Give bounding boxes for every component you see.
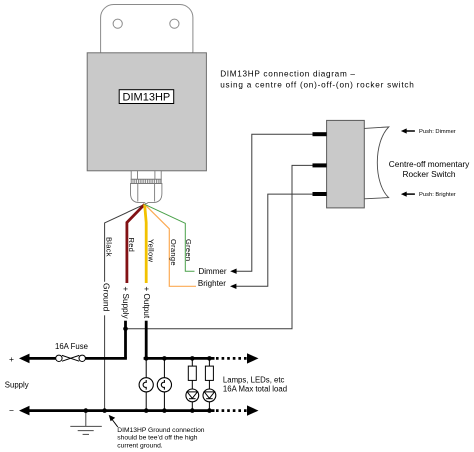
plus rail left segment: [26, 357, 127, 360]
switch terminal top: [313, 132, 327, 136]
arrowhead brighter: [230, 284, 236, 289]
thick drop + Output: [145, 321, 148, 359]
plus rail left arrowhead: [19, 354, 30, 364]
rocker switch body: [327, 120, 365, 207]
push dimmer arrow: [401, 128, 415, 133]
svg-text:Black: Black: [105, 237, 114, 257]
DIM13HP module body: [87, 53, 206, 171]
svg-text:Ground: Ground: [102, 283, 112, 312]
svg-text:Rocker Switch: Rocker Switch: [402, 169, 455, 179]
svg-text:Lamps, LEDs, etc: Lamps, LEDs, etc: [223, 375, 285, 384]
svg-text:Red: Red: [127, 238, 136, 253]
svg-text:Dimmer: Dimmer: [199, 267, 227, 276]
svg-text:should be tee’d off the high: should be tee’d off the high: [117, 435, 197, 442]
mounting hole right: [170, 19, 179, 28]
ground symbol junction dot: [84, 408, 89, 413]
wire switch middle terminal to + Supply: [126, 165, 313, 328]
svg-text:+ Supply: + Supply: [121, 287, 130, 320]
svg-text:Push: Brighter: Push: Brighter: [419, 192, 456, 198]
svg-text:using a centre off (on)-off-(o: using a centre off (on)-off-(on) rocker …: [220, 81, 414, 90]
wire switch top terminal to Dimmer: [236, 134, 313, 271]
switch terminal middle: [313, 163, 327, 167]
wire black lower segment: [104, 315, 106, 410]
svg-text:DIM13HP connection diagram –: DIM13HP connection diagram –: [220, 69, 356, 78]
svg-text:DIM13HP Ground connection: DIM13HP Ground connection: [117, 427, 205, 434]
svg-text:Centre-off momentary: Centre-off momentary: [389, 159, 470, 169]
wire red (+ Supply): [127, 204, 145, 283]
svg-text:current ground.: current ground.: [117, 442, 162, 449]
svg-text:Push: Dimmer: Push: Dimmer: [419, 129, 456, 135]
minus rail dashed arrow: [216, 409, 248, 412]
svg-text:Green: Green: [184, 239, 193, 261]
annotation arrow: [109, 415, 118, 427]
svg-text:+ Output: + Output: [142, 287, 151, 319]
minus rail: [26, 409, 215, 412]
arrowhead dimmer: [230, 269, 236, 274]
svg-text:Brighter: Brighter: [198, 279, 226, 288]
wire orange (Brighter): [145, 204, 196, 286]
wire black (Ground): [105, 204, 145, 281]
wire yellow (+ Output): [145, 204, 147, 283]
DIM13HP label: [119, 90, 174, 104]
svg-text:Yellow: Yellow: [147, 239, 156, 262]
svg-text:Orange: Orange: [169, 239, 178, 266]
svg-text:DIM13HP: DIM13HP: [123, 92, 171, 104]
push brighter arrow: [401, 192, 415, 197]
rocker actuator curve: [364, 127, 389, 199]
ground wire junction dot: [102, 408, 107, 413]
svg-text:−: −: [9, 406, 14, 416]
LED branch 2: [203, 356, 216, 413]
minus rail left arrowhead: [19, 406, 30, 416]
svg-text:16A Fuse: 16A Fuse: [55, 342, 88, 351]
lamp branch 2: [157, 356, 171, 413]
wire green (Dimmer): [145, 204, 195, 271]
fuse: [56, 355, 86, 362]
svg-text:+: +: [9, 354, 14, 364]
thick drop + Supply: [124, 321, 127, 359]
lamp branch 1: [139, 356, 153, 413]
LED branch 1: [186, 356, 199, 413]
junction dot supply/switch: [123, 327, 128, 332]
plus rail dashed arrow: [216, 357, 248, 360]
ground symbol: [70, 411, 102, 435]
svg-text:Supply: Supply: [5, 381, 29, 390]
svg-text:16A Max total load: 16A Max total load: [223, 385, 287, 394]
switch terminal bottom: [313, 192, 327, 196]
cable gland: [131, 171, 162, 204]
plus rail right segment: [144, 357, 215, 360]
mounting tab: [101, 5, 193, 65]
mounting hole left: [113, 19, 122, 28]
wire switch bottom terminal to Brighter: [236, 194, 313, 286]
